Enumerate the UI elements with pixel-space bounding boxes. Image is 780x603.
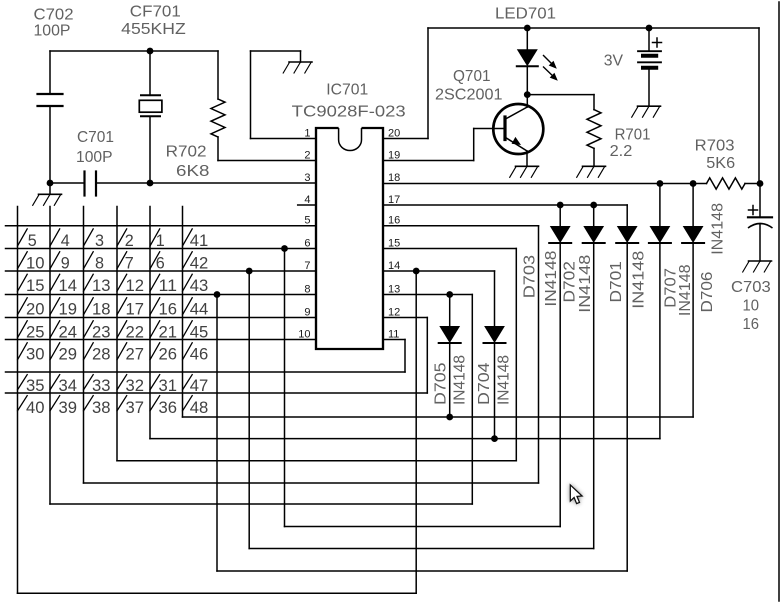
- svg-text:IN4148: IN4148: [577, 255, 594, 313]
- svg-text:IN4148: IN4148: [677, 264, 694, 316]
- svg-text:39: 39: [59, 399, 78, 417]
- svg-text:IN4148: IN4148: [451, 355, 468, 405]
- svg-text:2.2: 2.2: [610, 143, 633, 160]
- svg-text:LED701: LED701: [495, 6, 556, 23]
- svg-text:10: 10: [743, 298, 760, 315]
- svg-text:20: 20: [388, 128, 400, 140]
- svg-text:10: 10: [298, 329, 310, 341]
- svg-text:5K6: 5K6: [706, 155, 735, 172]
- svg-text:IN4148: IN4148: [495, 355, 512, 405]
- svg-text:35: 35: [26, 377, 45, 395]
- svg-text:D703: D703: [522, 255, 539, 299]
- svg-text:44: 44: [190, 301, 209, 319]
- svg-text:11: 11: [388, 329, 399, 341]
- svg-text:30: 30: [26, 346, 45, 364]
- svg-text:9: 9: [61, 255, 70, 273]
- svg-text:18: 18: [388, 172, 400, 184]
- svg-text:18: 18: [92, 301, 111, 319]
- svg-text:26: 26: [159, 346, 178, 364]
- svg-text:6: 6: [156, 255, 165, 273]
- svg-text:34: 34: [59, 377, 78, 395]
- svg-text:16: 16: [743, 316, 760, 333]
- svg-text:IN4148: IN4148: [709, 203, 726, 255]
- svg-text:1: 1: [304, 128, 310, 140]
- svg-text:2: 2: [125, 232, 134, 250]
- svg-text:40: 40: [26, 399, 45, 417]
- svg-text:1: 1: [156, 232, 165, 250]
- svg-text:C701: C701: [77, 129, 114, 146]
- svg-text:15: 15: [388, 238, 400, 250]
- svg-text:15: 15: [26, 277, 45, 295]
- svg-text:16: 16: [388, 215, 400, 227]
- svg-text:D701: D701: [608, 261, 625, 303]
- svg-text:9: 9: [304, 307, 310, 319]
- svg-text:11: 11: [159, 277, 178, 295]
- svg-text:17: 17: [388, 194, 400, 206]
- svg-text:5: 5: [304, 215, 310, 227]
- svg-text:C702: C702: [34, 7, 74, 24]
- svg-text:D704: D704: [476, 362, 493, 405]
- svg-text:16: 16: [159, 301, 178, 319]
- svg-text:28: 28: [92, 346, 111, 364]
- svg-text:21: 21: [159, 324, 178, 342]
- svg-text:7: 7: [125, 255, 134, 273]
- svg-text:43: 43: [190, 277, 209, 295]
- svg-text:D705: D705: [432, 362, 449, 405]
- svg-text:C703: C703: [731, 279, 771, 296]
- svg-text:22: 22: [126, 324, 145, 342]
- svg-text:R702: R702: [166, 144, 207, 161]
- svg-text:47: 47: [190, 377, 209, 395]
- svg-text:100P: 100P: [34, 23, 71, 40]
- svg-text:12: 12: [126, 277, 145, 295]
- svg-text:19: 19: [59, 301, 78, 319]
- svg-text:CF701: CF701: [130, 4, 181, 21]
- svg-text:20: 20: [26, 301, 45, 319]
- svg-text:42: 42: [190, 255, 209, 273]
- svg-text:25: 25: [26, 324, 45, 342]
- svg-text:29: 29: [59, 346, 78, 364]
- svg-text:D706: D706: [699, 271, 716, 312]
- svg-text:33: 33: [92, 377, 111, 395]
- svg-text:27: 27: [126, 346, 145, 364]
- svg-text:5: 5: [28, 232, 37, 250]
- svg-text:36: 36: [159, 399, 178, 417]
- svg-text:IN4148: IN4148: [630, 251, 647, 309]
- svg-text:8: 8: [95, 255, 104, 273]
- svg-text:R701: R701: [615, 127, 651, 144]
- svg-text:R703: R703: [695, 138, 735, 155]
- svg-text:13: 13: [388, 284, 400, 296]
- svg-text:31: 31: [159, 377, 178, 395]
- svg-text:37: 37: [126, 399, 145, 417]
- svg-text:3: 3: [95, 232, 104, 250]
- svg-text:4: 4: [304, 194, 310, 206]
- svg-text:455KHZ: 455KHZ: [121, 21, 186, 38]
- svg-text:41: 41: [190, 232, 209, 250]
- svg-text:17: 17: [126, 301, 145, 319]
- svg-text:Q701: Q701: [453, 68, 491, 85]
- svg-text:8: 8: [304, 284, 310, 296]
- svg-text:14: 14: [59, 277, 78, 295]
- svg-text:46: 46: [190, 346, 209, 364]
- svg-text:24: 24: [59, 324, 78, 342]
- svg-text:100P: 100P: [76, 149, 113, 166]
- svg-text:D702: D702: [562, 261, 579, 303]
- svg-text:32: 32: [126, 377, 145, 395]
- svg-text:45: 45: [190, 324, 209, 342]
- svg-text:7: 7: [304, 260, 310, 272]
- svg-text:IC701: IC701: [326, 82, 368, 99]
- svg-text:10: 10: [26, 255, 45, 273]
- svg-text:4: 4: [61, 232, 70, 250]
- svg-text:12: 12: [388, 307, 400, 319]
- svg-text:3V: 3V: [604, 53, 624, 70]
- svg-text:6: 6: [304, 238, 310, 250]
- svg-text:14: 14: [388, 260, 400, 272]
- svg-text:TC9028F-023: TC9028F-023: [292, 103, 406, 120]
- svg-text:3: 3: [304, 172, 310, 184]
- svg-text:23: 23: [92, 324, 111, 342]
- svg-text:13: 13: [92, 277, 111, 295]
- svg-text:38: 38: [92, 399, 111, 417]
- svg-text:2: 2: [304, 150, 310, 162]
- svg-text:IN4148: IN4148: [543, 250, 560, 306]
- svg-text:6K8: 6K8: [176, 163, 210, 180]
- svg-text:19: 19: [388, 150, 400, 162]
- svg-text:48: 48: [190, 399, 209, 417]
- svg-text:2SC2001: 2SC2001: [435, 86, 503, 103]
